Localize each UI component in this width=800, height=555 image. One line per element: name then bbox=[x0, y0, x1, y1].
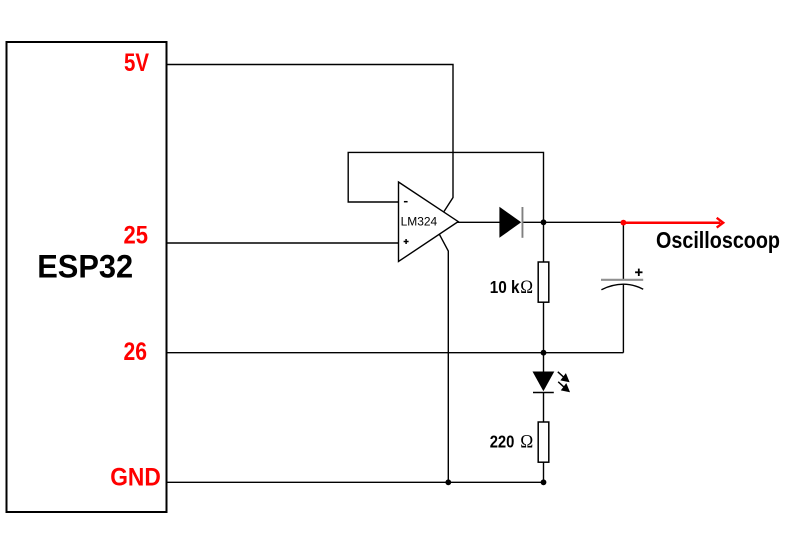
svg-text:Oscilloscoop: Oscilloscoop bbox=[656, 227, 780, 253]
svg-text:26: 26 bbox=[124, 338, 148, 366]
svg-text:10 k: 10 k bbox=[490, 277, 520, 297]
svg-text:Ω: Ω bbox=[520, 278, 533, 298]
svg-text:GND: GND bbox=[110, 463, 161, 491]
svg-text:Ω: Ω bbox=[520, 432, 533, 452]
svg-text:220: 220 bbox=[490, 431, 515, 451]
svg-text:LM324: LM324 bbox=[401, 215, 438, 229]
svg-text:25: 25 bbox=[124, 222, 149, 250]
svg-text:5V: 5V bbox=[124, 49, 149, 77]
svg-text:ESP32: ESP32 bbox=[37, 249, 133, 285]
